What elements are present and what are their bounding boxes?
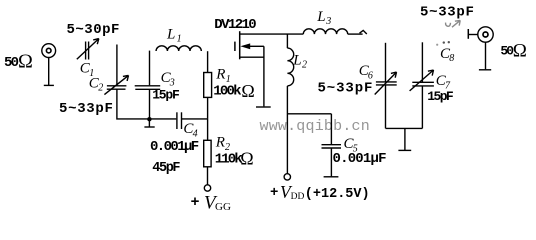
input connector J1 (50 ohm source) [42, 44, 56, 86]
wire Q1 body to source tie [250, 45, 264, 47]
wire source tie down [263, 46, 265, 106]
inductor L1 [156, 46, 201, 51]
C7 designator [436, 73, 451, 91]
wire C6 top vertical [385, 43, 387, 82]
svg-text:2: 2 [98, 83, 103, 94]
+VGG label [191, 193, 231, 214]
svg-text:110k: 110k [215, 152, 243, 168]
capacitor C6 (trimmer 5~33pF) [375, 72, 397, 94]
junction dot node B [147, 117, 151, 121]
transistor Q1 channel bar [239, 31, 241, 59]
C5 value 0.001uF [333, 151, 387, 167]
wire node A vertical (C2 branch top) [116, 45, 118, 86]
svg-text:www.qqibb.cn: www.qqibb.cn [260, 118, 370, 135]
wire C4 right to R column [182, 118, 208, 120]
svg-text:Ω: Ω [18, 51, 33, 73]
C8 plate remnant dots [436, 41, 450, 46]
wire end tick [360, 30, 367, 34]
svg-text:1: 1 [177, 34, 182, 45]
ground (mid, below junction) [144, 119, 154, 127]
L3 designator [316, 9, 331, 27]
input 50 ohm label [4, 51, 33, 73]
R2 value 110k ohm [215, 149, 254, 169]
capacitor C4 (series, 0.001uF / 45pF) [177, 112, 182, 129]
wire R2 bottom to VGG terminal [207, 167, 209, 185]
svg-text:3: 3 [325, 16, 331, 27]
wire C5 top vertical [330, 114, 332, 145]
svg-text:L: L [316, 9, 325, 25]
svg-text:L: L [292, 52, 301, 68]
L2 designator [292, 52, 307, 70]
svg-text:5~30pF: 5~30pF [67, 22, 120, 38]
capacitor C1 (trimmer 5~30pF) [77, 39, 99, 60]
svg-text:R: R [215, 134, 225, 150]
wire Q1 source stub [240, 56, 264, 58]
svg-text:DV1210: DV1210 [214, 17, 256, 33]
svg-text:0.001µF: 0.001µF [333, 151, 387, 167]
R1 value 100k ohm [213, 81, 254, 101]
svg-text:+: + [270, 185, 278, 201]
transistor Q1 body arrow [240, 43, 250, 49]
svg-text:Ω: Ω [241, 81, 254, 101]
wire C7 top vertical [421, 42, 423, 82]
wire bottom rail C6-C7 [386, 127, 423, 129]
ground (C5) [324, 176, 339, 178]
transistor Q1 gate bar [234, 42, 236, 51]
svg-text:L: L [166, 26, 175, 42]
svg-text:45pF: 45pF [152, 161, 180, 176]
C2 designator [89, 75, 103, 93]
C7 value 15pF [427, 89, 454, 104]
ground (Q1 source) [256, 106, 271, 108]
C3 designator [161, 70, 175, 88]
C8 value 5~33pF [420, 5, 475, 21]
svg-text:2: 2 [302, 59, 307, 70]
ground (output rail) [398, 128, 411, 150]
svg-text:15pF: 15pF [152, 88, 180, 103]
wire L1 left vertical to C3 [149, 51, 151, 86]
C3 value 15pF [152, 88, 180, 103]
R1 designator [215, 66, 230, 85]
output 50 ohm label [500, 41, 527, 62]
wire C6 bottom [385, 85, 387, 128]
svg-text:50: 50 [4, 55, 19, 71]
svg-text:0.001µF: 0.001µF [150, 139, 199, 155]
C5 designator [344, 136, 358, 154]
C6 value 5~33pF [318, 80, 374, 96]
svg-text:DD: DD [291, 192, 305, 202]
svg-text:100k: 100k [213, 83, 241, 99]
resistor R2 110k [204, 140, 211, 167]
wire L1 right vertical to R1 [207, 51, 209, 72]
R2 designator [215, 134, 230, 153]
svg-text:(+12.5V): (+12.5V) [305, 187, 370, 202]
wire L2 bottom to VDD terminal [286, 86, 288, 174]
wire C5 bottom [330, 148, 332, 176]
wire R1 bottom to bus [207, 97, 209, 119]
C4 designator [183, 121, 197, 139]
wire bus to R2 [207, 119, 209, 140]
C4 value 45pF [152, 161, 180, 176]
svg-text:GG: GG [215, 201, 231, 212]
svg-text:Ω: Ω [513, 41, 527, 62]
wire C7 bottom [421, 86, 423, 128]
svg-text:5~33pF: 5~33pF [318, 80, 374, 96]
svg-text:8: 8 [449, 53, 454, 64]
svg-text:4: 4 [193, 128, 198, 139]
wire drain top rail [240, 33, 304, 35]
wire VDD node to C5 [287, 113, 331, 115]
resistor R1 100k [204, 73, 212, 98]
C2 value label 5~33pF [59, 101, 114, 117]
svg-text:5~33pF: 5~33pF [420, 5, 475, 21]
wire drain node down to L2 [286, 34, 288, 48]
wire C3 bottom to bus [149, 89, 151, 119]
svg-text:Ω: Ω [240, 149, 253, 169]
svg-text:R: R [215, 66, 225, 82]
capacitor C2 (trimmer 5~33pF) [104, 75, 128, 94]
C8 designator [440, 46, 454, 64]
svg-text:5~33pF: 5~33pF [59, 101, 114, 117]
wire L3 to output node [348, 33, 363, 35]
capacitor C8 remnants (faded trimmer marks) [446, 20, 461, 27]
capacitor C5 0.001uF [322, 145, 342, 148]
transistor Q1 DV1210 label [214, 17, 256, 33]
VGG terminal circle [204, 185, 210, 191]
C4 value 0.001uF [150, 139, 199, 155]
inductor L2 [287, 48, 293, 86]
+VDD (+12.5V) label [270, 182, 370, 202]
capacitor C3 15pF [135, 86, 161, 90]
L1 designator [166, 26, 182, 44]
C1 designator [80, 61, 95, 79]
C1 value label 5~30pF [67, 22, 120, 38]
output connector J2 (50 ohm load) [468, 27, 493, 70]
inductor L3 [303, 29, 347, 34]
svg-text:+: + [191, 194, 200, 211]
C6 designator [359, 63, 373, 81]
VDD terminal circle [284, 174, 290, 180]
capacitor C7 (trimmer 15pF) [410, 70, 434, 91]
svg-text:15pF: 15pF [427, 89, 454, 104]
wire C2 bottom to bus corner [117, 89, 176, 119]
